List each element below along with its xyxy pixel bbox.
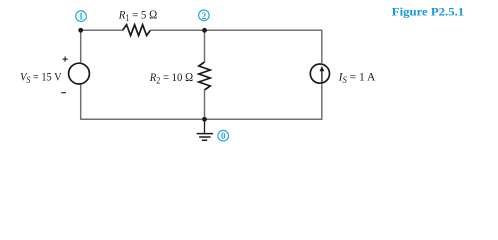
svg-text:Figure P2.5.1: Figure P2.5.1 — [392, 5, 464, 19]
wire: top-left segment from node 1 to R1 — [81, 29, 123, 31]
node 1 junction dot — [78, 28, 83, 33]
node 1 badge — [76, 11, 87, 23]
svg-text:VS = 15 V: VS = 15 V — [20, 70, 62, 86]
wire: bottom from bottom-right corner to ground junction — [205, 118, 322, 120]
ground junction dot — [202, 117, 207, 122]
plus sign of VS — [63, 57, 68, 62]
ground — [197, 119, 213, 140]
wire: R2 branch upper, node 2 down to R2 — [204, 30, 206, 62]
wire: right side upper, corner to current source — [321, 30, 323, 64]
svg-text:0: 0 — [221, 132, 226, 142]
current source IS — [310, 64, 329, 83]
svg-text:R2 = 10 Ω: R2 = 10 Ω — [149, 70, 193, 86]
svg-text:1: 1 — [79, 13, 84, 23]
wire: bottom from ground junction to bottom-left corner — [81, 118, 205, 120]
wire: top segment from R1 to node 2 — [150, 29, 204, 31]
voltage source VS — [69, 63, 90, 84]
resistor R2 — [199, 62, 210, 90]
node 2 badge — [199, 10, 210, 22]
wire: top segment from node 2 to top-right corner — [204, 29, 321, 31]
wire: right side lower, current source to bottom-right corner — [321, 84, 323, 120]
wire: R2 branch lower, R2 down to ground junction — [204, 90, 206, 119]
node 2 junction dot — [202, 28, 207, 33]
minus sign of VS — [61, 92, 66, 94]
resistor R1 — [123, 25, 151, 36]
svg-text:2: 2 — [202, 12, 207, 22]
svg-text:R1 = 5 Ω: R1 = 5 Ω — [118, 7, 158, 23]
wire: left side upper, voltage source to node 1 — [80, 30, 82, 63]
node 0 badge — [218, 130, 229, 142]
wire: left side lower, corner to voltage source — [80, 85, 82, 120]
